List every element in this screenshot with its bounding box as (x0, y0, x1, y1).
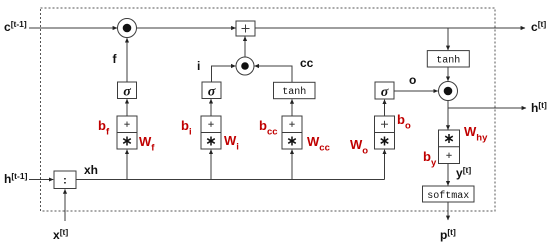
softmax box (423, 186, 475, 202)
multiply node forget (118, 19, 137, 38)
sigma box i (202, 82, 221, 100)
wire output multiply down (447, 101, 449, 130)
svg-text:σ: σ (123, 85, 131, 100)
wire f sigma to multiply (126, 38, 128, 82)
gate stack hy (439, 130, 460, 164)
wire xh bus (76, 179, 385, 181)
wire cc tanh to multiply (255, 66, 292, 82)
svg-text:cc: cc (300, 56, 314, 70)
wire cc stack to tanh (291, 99, 293, 116)
svg-text:o: o (409, 73, 416, 87)
gate stack cc (282, 116, 302, 149)
svg-text:σ: σ (208, 85, 216, 100)
gate stack o (375, 116, 395, 149)
sigma box f (118, 82, 137, 100)
gate stack i (201, 116, 221, 149)
wire softmax to p (447, 202, 449, 220)
wire o sigma to multiply (394, 90, 438, 92)
wire hy stack to softmax (447, 164, 449, 186)
svg-text:softmax: softmax (427, 190, 469, 202)
wire c-line in (29, 27, 117, 29)
multiply node output (439, 82, 458, 101)
wire x in (64, 189, 66, 221)
svg-text::: : (63, 175, 67, 187)
wire i sigma to multiply (212, 66, 236, 82)
wire h in (29, 179, 53, 181)
wire i stack to sigma (210, 99, 212, 116)
wire bus riser f (126, 150, 128, 180)
wire o stack to sigma (384, 100, 386, 116)
wire c-line to tanh (447, 28, 449, 50)
tanh box output (427, 51, 469, 67)
wire tanh to multiply output (447, 67, 449, 81)
wire multiply-to-add (244, 37, 246, 57)
multiply node input (236, 57, 254, 75)
svg-text:xh: xh (84, 163, 98, 177)
wire h out (448, 107, 526, 109)
wire f stack to sigma (126, 99, 128, 116)
svg-text:σ: σ (381, 85, 389, 100)
dashed cell border (41, 8, 496, 211)
wire bus riser cc (291, 150, 293, 180)
add box cell update (236, 21, 255, 36)
svg-text:i: i (197, 59, 200, 73)
svg-text:tanh: tanh (436, 55, 460, 67)
tanh box cc (274, 82, 316, 98)
wire c-line out (255, 27, 525, 29)
wire bus riser o (384, 150, 386, 180)
gate stack f (117, 116, 137, 149)
wire bus riser i (210, 150, 212, 180)
svg-text:tanh: tanh (282, 86, 306, 98)
sigma box o (375, 82, 394, 100)
wire c-line mid (137, 27, 236, 29)
concat box (54, 171, 76, 189)
